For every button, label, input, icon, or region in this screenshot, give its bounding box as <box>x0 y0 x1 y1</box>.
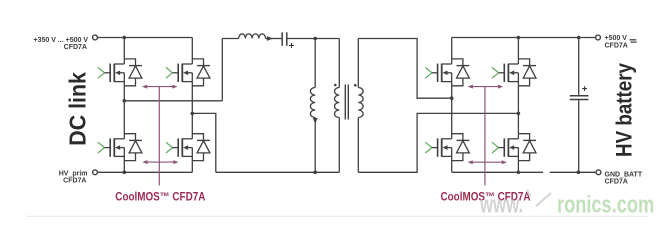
wire Q2 drain <box>191 38 193 65</box>
junction magnetizing branch bottom <box>313 171 317 175</box>
callout line left bridge <box>158 87 160 186</box>
capacitor C resonant plate 2 <box>286 32 288 46</box>
svg-text:HV_prim: HV_prim <box>59 170 88 177</box>
junction leg1 midpoint <box>123 99 127 103</box>
transistor Q5 (CoolMOS top-left of right bridge) <box>425 59 469 86</box>
wire output cap top <box>578 38 580 95</box>
junction right leg2 midpoint <box>517 112 521 116</box>
wire secondary bottom to right bridge <box>358 113 518 172</box>
wire Q2 source / Q4 drain <box>191 73 193 139</box>
callout arrow lower right bridge <box>468 160 507 164</box>
wire to resonant inductor <box>222 38 238 40</box>
svg-text:www.: www. <box>479 192 523 219</box>
junction top rail / output cap <box>577 36 581 40</box>
callout arrow upper left bridge <box>142 85 178 89</box>
transformer T1 primary winding <box>334 88 339 118</box>
wire output A riser <box>221 39 223 101</box>
wire magnetizing top <box>314 39 316 88</box>
wire transformer bottom left link <box>216 171 339 173</box>
transformer T1 secondary winding <box>358 88 363 118</box>
wire secondary bottom <box>357 118 359 173</box>
wire left bridge output B <box>192 113 216 172</box>
wire Q4 source <box>191 148 193 173</box>
wire arrow to capacitor <box>272 38 282 40</box>
footer divider line <box>26 215 648 217</box>
capacitor C out plate 2 <box>570 99 589 101</box>
wire bottom rail right bridge (right of watermark gap) <box>550 171 596 173</box>
svg-text:CFD7A: CFD7A <box>63 178 86 185</box>
junction leg2 midpoint <box>191 112 195 116</box>
wire bottom rail right bridge (left of watermark gap) <box>452 171 543 173</box>
callout arrow upper right bridge <box>468 85 504 89</box>
polarity dot secondary <box>354 84 357 87</box>
wire Q8 source <box>517 148 519 173</box>
terminal HV+ DC link input <box>93 35 98 40</box>
watermark TM mark <box>630 40 637 42</box>
callout arrow lower left bridge <box>142 160 178 164</box>
svg-text:DC link: DC link <box>65 71 91 145</box>
junction right leg1 midpoint <box>450 96 454 100</box>
junction top rail / leg1 <box>123 36 127 40</box>
capacitor polarity + <box>289 43 294 48</box>
junction magnetizing branch top <box>313 37 317 41</box>
wire secondary top <box>357 39 359 88</box>
transistor Q7 (CoolMOS bottom-left of right bridge) <box>425 134 469 161</box>
svg-text:CFD7A: CFD7A <box>64 44 87 51</box>
callout line right bridge <box>484 87 486 186</box>
transistor Q2 (CoolMOS top-right of left bridge) <box>166 59 210 86</box>
svg-text:+500 V: +500 V <box>605 35 628 42</box>
capacitor C resonant plate 1 <box>281 32 283 46</box>
terminal +500 V battery <box>596 35 601 40</box>
transformer core line 1 <box>344 85 346 120</box>
wire top rail left bridge <box>97 37 192 39</box>
svg-text:CoolMOS™ CFD7A: CoolMOS™ CFD7A <box>115 191 205 204</box>
wire primary top <box>338 39 340 88</box>
wire output cap bottom <box>578 100 580 173</box>
wire secondary top to right bridge <box>358 39 451 99</box>
wire magnetizing bottom <box>314 118 316 173</box>
wire top rail right bridge <box>452 37 596 39</box>
terminal GND_BATT <box>596 170 601 175</box>
inductor Lm (magnetizing) <box>310 88 315 118</box>
svg-text:HV battery: HV battery <box>612 62 637 157</box>
wire bottom rail left bridge <box>97 171 192 173</box>
watermark slash marks <box>527 190 551 206</box>
wire Q3 source <box>123 148 125 173</box>
wire capacitor to transformer <box>288 38 340 40</box>
transformer core line 2 <box>347 85 349 120</box>
inductor L resonant (series) <box>239 34 266 39</box>
junction bottom rail / output cap <box>577 171 581 175</box>
wire Q1 source to mid rail <box>123 73 125 139</box>
current direction arrow <box>267 36 273 41</box>
wire Q5 drain <box>451 38 453 65</box>
transistor Q8 (CoolMOS bottom-right of right bridge) <box>492 134 536 161</box>
capacitor C out plate 1 <box>570 95 589 97</box>
svg-text:GND_BATT: GND_BATT <box>605 171 643 178</box>
capacitor C out polarity + <box>582 86 587 91</box>
transistor Q3 (CoolMOS bottom-left) <box>98 134 142 161</box>
svg-text:ronics.com: ronics.com <box>557 191 654 218</box>
wire Q6 source / Q8 drain <box>517 73 519 139</box>
magnetizing current arrow <box>313 118 318 124</box>
transistor Q4 (CoolMOS bottom-right of left bridge) <box>166 134 210 161</box>
wire Q7 source <box>451 148 453 173</box>
wire inductor to arrow <box>266 38 268 40</box>
wire Q1 drain <box>123 38 125 65</box>
wire Q5 source / leg1 down <box>451 73 453 139</box>
terminal HV_prim <box>93 170 98 175</box>
wire primary bottom <box>338 118 340 173</box>
svg-text:CFD7A: CFD7A <box>605 42 628 49</box>
wire left bridge output A (mid rail) <box>124 100 222 102</box>
transistor Q6 (CoolMOS top-right of right bridge) <box>492 59 536 86</box>
junction bottom rail / leg1 <box>123 171 127 175</box>
junction top rail / right leg2 <box>517 36 521 40</box>
wire Q6 drain <box>517 38 519 65</box>
polarity dot primary <box>334 84 337 87</box>
transistor Q1 (CoolMOS top-left) <box>98 59 142 86</box>
junction bottom rail / right leg2 <box>517 171 521 175</box>
svg-text:CFD7A: CFD7A <box>605 178 628 185</box>
